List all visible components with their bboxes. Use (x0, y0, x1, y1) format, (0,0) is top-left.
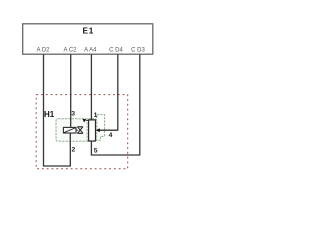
svg-text:5: 5 (94, 148, 98, 155)
coil diagonal (64, 128, 75, 133)
wire terminal 5 to C D3 (91, 54, 139, 155)
actuation arrow at contact (82, 119, 86, 123)
svg-text:1: 1 (94, 112, 98, 119)
component outline H1 (green dashed body) (56, 119, 97, 142)
highlight box (red dashed) around H1 (36, 95, 128, 169)
svg-text:E1: E1 (82, 26, 94, 35)
svg-text:C D4: C D4 (109, 48, 123, 54)
wire A D2 to terminal 2 (44, 54, 71, 166)
svg-text:3: 3 (71, 111, 75, 118)
breaker contact (hourglass) (77, 127, 83, 134)
actuation arrow tail (86, 119, 89, 121)
terminal 4 arrow (96, 128, 100, 132)
coil link to breaker (76, 129, 78, 131)
wire A A4 to terminal 1 (90, 54, 92, 120)
svg-text:4: 4 (109, 132, 113, 139)
svg-text:C D3: C D3 (131, 48, 145, 54)
control unit E1 box (23, 24, 153, 54)
svg-text:A D2: A D2 (36, 48, 50, 54)
component outline H1 inner divider (86, 119, 88, 142)
wire A C2 to terminal 3 (70, 54, 72, 127)
svg-text:H1: H1 (44, 110, 55, 119)
svg-text:2: 2 (72, 146, 76, 153)
coil of H1 (63, 127, 76, 133)
wire C D4 to terminal 4 (99, 54, 118, 130)
svg-text:A A4: A A4 (84, 48, 97, 54)
svg-text:A C2: A C2 (63, 48, 77, 54)
component outline H1 terminal-4 notch (97, 115, 105, 141)
contact element of H1 (89, 120, 96, 141)
